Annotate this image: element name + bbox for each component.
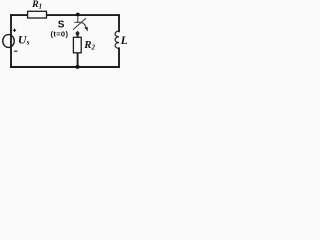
svg-text:L: L [120, 33, 127, 47]
svg-text:(t=0): (t=0) [51, 29, 69, 38]
